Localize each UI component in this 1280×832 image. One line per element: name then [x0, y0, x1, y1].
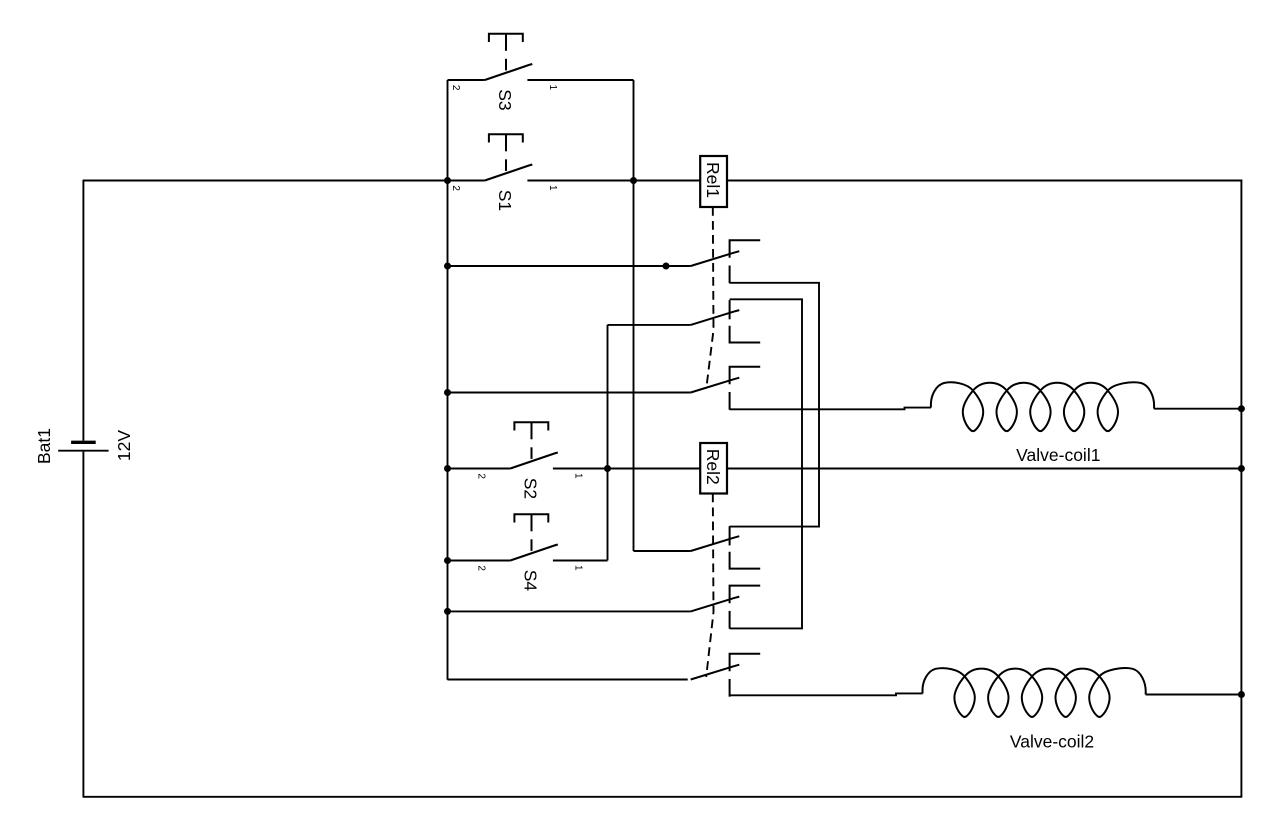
mechanical link of relay Rel2 (dashed): [706, 494, 713, 678]
wire: lead to Rel1 contact 3: [448, 392, 691, 394]
relay contact Rel1-K2: [691, 310, 740, 325]
node: left bus to Rel1 contact 3: [444, 389, 451, 396]
node: Valve-coil1 to right rail: [1238, 405, 1245, 412]
wire: Rel1 contact 2 output to Rel2 contact 2: [730, 299, 802, 628]
svg-text:Bat1: Bat1: [34, 428, 54, 464]
wire: Valve-coil1 to right rail: [1154, 408, 1241, 410]
svg-text:Valve-coil1: Valve-coil1: [1016, 445, 1100, 465]
wire: lead to Rel1 contact 2: [608, 324, 691, 326]
mechanical link of relay Rel1 (dashed): [707, 207, 714, 386]
svg-text:2: 2: [450, 85, 461, 91]
node: S2 out / S4 out junction: [604, 465, 611, 472]
wire: top rail from S1 node to relay Rel1: [634, 180, 701, 182]
node: left bus to Rel2 contact 2: [444, 608, 451, 615]
wire: Rel1 contact 1 output to Rel2 contact 1: [730, 283, 819, 527]
svg-text:S2: S2: [521, 478, 541, 499]
node: battery + / S1 / S3 riser junction: [444, 177, 451, 184]
relay contact Rel2-K2: [691, 597, 740, 612]
wire: S3 output drop to S1 output node: [633, 80, 635, 551]
wire: left rail upper (battery to top-left corner): [82, 180, 84, 441]
switch S1 (second push switch): [448, 180, 485, 182]
svg-text:S3: S3: [495, 89, 515, 110]
svg-text:1: 1: [573, 473, 584, 479]
wire: S4 output riser and Rel1-contact2 feed: [607, 325, 609, 561]
wire: lead to Rel2 contact 3: [448, 679, 688, 681]
node: left bus to S4: [444, 557, 451, 564]
svg-text:Rel2: Rel2: [703, 449, 723, 485]
wire: top rail from battery + to S1/relay row: [83, 180, 447, 182]
svg-text:S4: S4: [521, 570, 541, 592]
wire: lead to Rel1 contact 1: [448, 265, 691, 267]
switch S2 (third push switch): [448, 468, 511, 470]
svg-text:2: 2: [475, 565, 486, 571]
svg-text:2: 2: [475, 473, 486, 479]
svg-text:1: 1: [547, 85, 558, 91]
svg-text:1: 1: [573, 565, 584, 571]
wire: bottom rail: [83, 796, 1243, 798]
wire: Valve-coil2 to right rail: [1146, 694, 1242, 696]
wire: S2/Rel2 row to right rail: [727, 468, 1241, 470]
node: left bus to Rel1 contact 1: [444, 263, 451, 270]
switch S4 (fourth push switch): [448, 560, 511, 562]
wire: right rail: [1240, 180, 1242, 797]
battery Bat1: [71, 441, 96, 444]
node: Rel1 contact 1 lead joint: [663, 263, 670, 270]
svg-text:2: 2: [450, 185, 461, 191]
svg-text:1: 1: [547, 185, 558, 191]
svg-text:12V: 12V: [114, 430, 134, 461]
wire: vertical S3-to-S1 riser / main left bus: [447, 80, 449, 680]
relay contact Rel1-K1: [691, 251, 740, 266]
node: Rel2 row to right rail: [1238, 465, 1245, 472]
wire: top rail from relay Rel1 to top-right corner: [727, 180, 1242, 182]
relay coil Rel1: [700, 156, 727, 207]
inductor Valve-coil1: [931, 382, 1154, 431]
relay contact Rel1-K3: [691, 378, 740, 393]
wire: lead to Rel2 contact 2: [448, 610, 691, 612]
switch S3 (top push switch): [448, 79, 485, 81]
wire: Rel2 contact 3 output to Valve-coil2: [730, 693, 923, 695]
node: Valve-coil2 to right rail: [1238, 691, 1245, 698]
wire: left rail lower (battery - to bottom-left corner): [82, 452, 84, 797]
wire: lead to Rel2 contact 1: [634, 550, 691, 552]
wire: Rel1 contact 3 output to Valve-coil1: [730, 408, 931, 410]
node: left bus to S2: [444, 465, 451, 472]
svg-text:Rel1: Rel1: [703, 162, 723, 198]
relay coil Rel2: [700, 443, 727, 494]
svg-text:Valve-coil2: Valve-coil2: [1010, 732, 1094, 752]
node: S1 out / S3 out / Rel1 junction: [630, 177, 637, 184]
relay contact Rel2-K3: [691, 665, 740, 680]
relay contact Rel2-K1: [691, 536, 740, 551]
inductor Valve-coil2: [922, 668, 1145, 717]
svg-text:S1: S1: [495, 190, 515, 211]
